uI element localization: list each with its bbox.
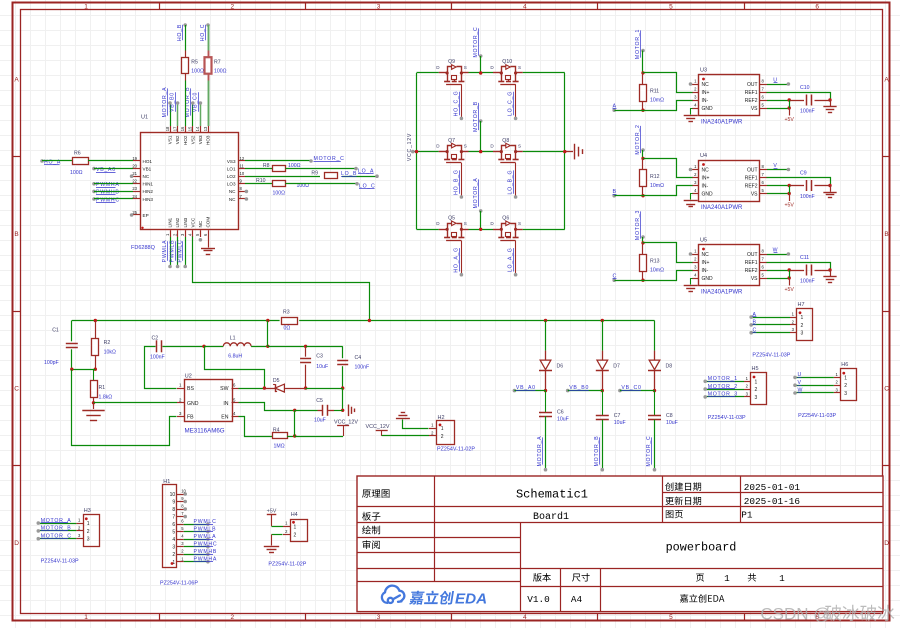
svg-text:HO_C: HO_C bbox=[200, 24, 206, 41]
svg-text:R3: R3 bbox=[283, 309, 290, 315]
svg-text:4: 4 bbox=[172, 537, 175, 543]
svg-text:Q7: Q7 bbox=[448, 138, 455, 144]
svg-text:GND: GND bbox=[702, 276, 714, 282]
svg-text:2: 2 bbox=[87, 529, 90, 535]
svg-text:8: 8 bbox=[172, 507, 175, 513]
svg-text:1MΩ: 1MΩ bbox=[274, 444, 285, 450]
svg-text:3: 3 bbox=[755, 395, 758, 401]
svg-text:6.8uH: 6.8uH bbox=[228, 354, 242, 360]
svg-text:6: 6 bbox=[815, 3, 819, 10]
svg-text:VCC_12V: VCC_12V bbox=[334, 420, 358, 426]
svg-text:H3: H3 bbox=[84, 508, 91, 514]
svg-text:A: A bbox=[14, 77, 19, 84]
svg-text:R10: R10 bbox=[256, 178, 266, 184]
svg-text:100Ω: 100Ω bbox=[70, 170, 83, 176]
svg-text:3: 3 bbox=[801, 331, 804, 337]
svg-text:PZ254V-11-02P: PZ254V-11-02P bbox=[268, 562, 306, 568]
svg-text:LIN2: LIN2 bbox=[175, 217, 180, 227]
svg-text:PZ254V-11-03P: PZ254V-11-03P bbox=[798, 413, 836, 419]
svg-text:100nF: 100nF bbox=[800, 109, 815, 115]
svg-text:1: 1 bbox=[294, 525, 297, 531]
svg-text:H1: H1 bbox=[163, 479, 170, 485]
svg-text:HO_B_G: HO_B_G bbox=[454, 169, 460, 195]
svg-text:LIN3: LIN3 bbox=[183, 217, 188, 227]
svg-text:100nF: 100nF bbox=[355, 365, 370, 371]
svg-text:9: 9 bbox=[172, 500, 175, 506]
svg-text:REF1: REF1 bbox=[745, 90, 758, 96]
svg-text:4: 4 bbox=[523, 614, 527, 621]
svg-text:C3: C3 bbox=[316, 354, 323, 360]
svg-text:OUT: OUT bbox=[747, 167, 758, 173]
svg-text:REF1: REF1 bbox=[745, 175, 758, 181]
svg-text:+5V: +5V bbox=[267, 509, 277, 515]
svg-text:R1: R1 bbox=[99, 385, 106, 391]
svg-text:COM: COM bbox=[206, 217, 211, 228]
svg-text:D: D bbox=[884, 540, 889, 547]
svg-text:10uF: 10uF bbox=[666, 420, 678, 426]
svg-text:LIN1: LIN1 bbox=[168, 217, 173, 227]
svg-text:C: C bbox=[14, 386, 19, 393]
svg-text:1: 1 bbox=[84, 3, 88, 10]
svg-text:3: 3 bbox=[844, 391, 847, 397]
svg-text:U1: U1 bbox=[141, 115, 148, 121]
svg-text:GND: GND bbox=[702, 106, 714, 112]
svg-text:REF1: REF1 bbox=[745, 260, 758, 266]
svg-text:INA240A1PWR: INA240A1PWR bbox=[701, 205, 743, 211]
svg-text:PZ254V-11-03P: PZ254V-11-03P bbox=[752, 353, 790, 359]
svg-text:VB2: VB2 bbox=[175, 135, 180, 144]
svg-text:VS: VS bbox=[751, 106, 758, 112]
svg-text:MOTOR_C: MOTOR_C bbox=[473, 26, 479, 57]
svg-text:1: 1 bbox=[779, 573, 785, 584]
svg-text:D: D bbox=[14, 540, 19, 547]
svg-text:1: 1 bbox=[87, 521, 90, 527]
svg-text:100Ω: 100Ω bbox=[273, 191, 286, 197]
svg-text:HIN2: HIN2 bbox=[143, 189, 154, 194]
svg-text:+5V: +5V bbox=[785, 117, 795, 123]
svg-text:MOTOR_B: MOTOR_B bbox=[473, 101, 479, 132]
svg-text:VB3: VB3 bbox=[198, 135, 203, 144]
svg-text:2: 2 bbox=[231, 614, 235, 621]
svg-text:powerboard: powerboard bbox=[666, 541, 737, 555]
svg-text:MOTOR_B: MOTOR_B bbox=[594, 436, 600, 467]
svg-text:EN: EN bbox=[221, 415, 228, 421]
svg-text:LO2: LO2 bbox=[227, 174, 236, 179]
svg-text:GND: GND bbox=[187, 401, 199, 407]
svg-text:EP: EP bbox=[143, 213, 149, 218]
svg-text:PZ254V-11-03P: PZ254V-11-03P bbox=[708, 415, 746, 421]
svg-text:1: 1 bbox=[724, 573, 730, 584]
svg-text:VCC_12V: VCC_12V bbox=[366, 424, 390, 430]
svg-text:MOTOR_2: MOTOR_2 bbox=[708, 384, 738, 390]
svg-text:HO1: HO1 bbox=[143, 159, 153, 164]
svg-text:REF2: REF2 bbox=[745, 268, 758, 274]
svg-text:5: 5 bbox=[669, 3, 673, 10]
svg-text:3: 3 bbox=[172, 545, 175, 551]
svg-text:10kΩ: 10kΩ bbox=[104, 350, 116, 356]
svg-text:24: 24 bbox=[132, 194, 137, 199]
svg-text:VS: VS bbox=[751, 276, 758, 282]
svg-text:18: 18 bbox=[165, 126, 170, 131]
svg-text:IN+: IN+ bbox=[702, 90, 710, 96]
svg-text:10mΩ: 10mΩ bbox=[650, 98, 664, 104]
svg-text:BS: BS bbox=[187, 386, 194, 392]
svg-text:10uF: 10uF bbox=[314, 418, 326, 424]
svg-text:VCC_12V: VCC_12V bbox=[407, 133, 413, 161]
svg-text:V: V bbox=[773, 163, 777, 169]
svg-text:VS1: VS1 bbox=[168, 135, 173, 144]
svg-text:INA240A1PWR: INA240A1PWR bbox=[701, 120, 743, 126]
svg-text:23: 23 bbox=[132, 186, 137, 191]
svg-text:4: 4 bbox=[523, 3, 527, 10]
svg-text:U4: U4 bbox=[700, 153, 707, 159]
svg-text:S: S bbox=[464, 143, 467, 148]
svg-text:+5V: +5V bbox=[785, 203, 795, 209]
svg-text:1.8kΩ: 1.8kΩ bbox=[99, 395, 113, 401]
svg-text:12: 12 bbox=[240, 156, 245, 161]
svg-text:PWMLA: PWMLA bbox=[194, 534, 217, 540]
svg-text:NC: NC bbox=[702, 252, 710, 258]
svg-text:U3: U3 bbox=[700, 68, 707, 74]
svg-text:PWMLB: PWMLB bbox=[170, 240, 176, 263]
svg-text:Q8: Q8 bbox=[502, 138, 509, 144]
svg-text:Q9: Q9 bbox=[448, 59, 455, 65]
svg-text:R13: R13 bbox=[650, 259, 660, 265]
svg-text:P1: P1 bbox=[741, 509, 753, 520]
svg-text:C2: C2 bbox=[152, 336, 159, 342]
svg-text:100Ω: 100Ω bbox=[191, 68, 204, 74]
svg-text:IN-: IN- bbox=[702, 98, 709, 104]
svg-text:VB_A0: VB_A0 bbox=[96, 167, 116, 173]
svg-text:R2: R2 bbox=[104, 340, 111, 346]
svg-text:1: 1 bbox=[844, 375, 847, 381]
svg-text:1: 1 bbox=[441, 426, 444, 432]
svg-text:2: 2 bbox=[231, 3, 235, 10]
svg-text:10mΩ: 10mΩ bbox=[650, 183, 664, 189]
svg-text:IN-: IN- bbox=[702, 268, 709, 274]
svg-text:PZ254V-11-02P: PZ254V-11-02P bbox=[437, 447, 475, 453]
svg-text:NC: NC bbox=[702, 167, 710, 173]
svg-text:LO_B_G: LO_B_G bbox=[508, 170, 514, 195]
svg-text:HIN1: HIN1 bbox=[143, 182, 154, 187]
svg-text:S: S bbox=[518, 143, 521, 148]
svg-text:R11: R11 bbox=[650, 89, 659, 95]
svg-text:1: 1 bbox=[801, 315, 804, 321]
svg-text:20: 20 bbox=[132, 163, 137, 168]
svg-text:PWMHB: PWMHB bbox=[194, 549, 218, 555]
svg-text:H6: H6 bbox=[841, 362, 848, 368]
svg-text:10uF: 10uF bbox=[316, 364, 328, 370]
svg-text:A4: A4 bbox=[571, 594, 583, 605]
svg-text:2025-01-01: 2025-01-01 bbox=[744, 482, 801, 493]
svg-text:6: 6 bbox=[172, 522, 175, 528]
svg-text:100nF: 100nF bbox=[800, 194, 815, 200]
svg-text:1: 1 bbox=[84, 614, 88, 621]
svg-text:VS: VS bbox=[751, 191, 758, 197]
svg-text:2025-01-16: 2025-01-16 bbox=[744, 496, 801, 507]
svg-text:S: S bbox=[518, 221, 521, 226]
svg-text:10mΩ: 10mΩ bbox=[650, 268, 664, 274]
svg-text:7: 7 bbox=[172, 515, 175, 521]
svg-text:D5: D5 bbox=[273, 378, 280, 384]
svg-text:V: V bbox=[798, 380, 802, 386]
svg-text:3: 3 bbox=[377, 3, 381, 10]
svg-text:R12: R12 bbox=[650, 174, 660, 180]
svg-text:FB: FB bbox=[187, 415, 194, 421]
svg-text:HO3: HO3 bbox=[206, 135, 211, 145]
svg-text:SW: SW bbox=[220, 386, 228, 392]
svg-text:V1.0: V1.0 bbox=[527, 594, 550, 605]
svg-text:IN+: IN+ bbox=[702, 260, 710, 266]
svg-text:100nF: 100nF bbox=[800, 279, 815, 285]
svg-text:100pF: 100pF bbox=[44, 360, 59, 366]
svg-text:L1: L1 bbox=[230, 336, 236, 342]
svg-text:H4: H4 bbox=[291, 512, 298, 518]
svg-text:3: 3 bbox=[87, 537, 90, 543]
svg-text:S: S bbox=[464, 65, 467, 70]
svg-text:C4: C4 bbox=[355, 355, 362, 361]
svg-text:NC: NC bbox=[229, 197, 236, 202]
svg-text:R7: R7 bbox=[214, 59, 221, 65]
svg-text:Q6: Q6 bbox=[502, 216, 509, 222]
svg-text:IN-: IN- bbox=[702, 183, 709, 189]
svg-text:MOTOR_A: MOTOR_A bbox=[41, 518, 72, 524]
svg-text:MOTOR_A: MOTOR_A bbox=[473, 178, 479, 209]
svg-text:H2: H2 bbox=[438, 415, 445, 421]
svg-text:+5V: +5V bbox=[785, 287, 795, 293]
svg-text:14: 14 bbox=[195, 126, 200, 131]
svg-text:R9: R9 bbox=[311, 170, 318, 176]
svg-text:13: 13 bbox=[203, 126, 208, 131]
svg-text:B: B bbox=[884, 231, 888, 238]
svg-text:PZ254V-11-06P: PZ254V-11-06P bbox=[160, 581, 198, 587]
svg-text:100nF: 100nF bbox=[150, 355, 165, 361]
svg-text:PWMLC: PWMLC bbox=[194, 519, 217, 525]
svg-text:C5: C5 bbox=[316, 398, 323, 404]
svg-text:B: B bbox=[14, 231, 18, 238]
svg-text:A: A bbox=[753, 312, 757, 318]
svg-text:10uF: 10uF bbox=[614, 420, 626, 426]
svg-text:17: 17 bbox=[172, 126, 177, 131]
svg-text:10: 10 bbox=[170, 492, 176, 498]
svg-text:OUT: OUT bbox=[747, 82, 758, 88]
svg-text:ME3116AM6G: ME3116AM6G bbox=[185, 428, 225, 435]
svg-text:H5: H5 bbox=[752, 366, 759, 372]
svg-text:IN+: IN+ bbox=[702, 175, 710, 181]
svg-text:IN: IN bbox=[223, 401, 228, 407]
svg-text:D8: D8 bbox=[666, 364, 673, 370]
svg-text:INA240A1PWR: INA240A1PWR bbox=[701, 290, 743, 296]
svg-text:REF2: REF2 bbox=[745, 183, 758, 189]
svg-text:0Ω: 0Ω bbox=[284, 326, 291, 332]
svg-text:EDA: EDA bbox=[455, 590, 487, 607]
svg-text:PZ254V-11-03P: PZ254V-11-03P bbox=[41, 559, 79, 565]
svg-text:NC: NC bbox=[702, 82, 710, 88]
svg-text:D6: D6 bbox=[557, 364, 564, 370]
svg-text:CSDN @: CSDN @ bbox=[760, 604, 830, 623]
svg-text:MOTOR_1: MOTOR_1 bbox=[708, 376, 738, 382]
svg-text:VS2: VS2 bbox=[190, 135, 195, 144]
svg-text:2: 2 bbox=[172, 552, 175, 558]
svg-text:16: 16 bbox=[180, 126, 185, 131]
svg-text:LO_B: LO_B bbox=[341, 171, 357, 177]
svg-text:REF2: REF2 bbox=[745, 98, 758, 104]
svg-text:NC: NC bbox=[143, 174, 150, 179]
svg-text:HIN3: HIN3 bbox=[143, 197, 154, 202]
svg-text:C1: C1 bbox=[52, 328, 59, 334]
svg-text:5: 5 bbox=[172, 530, 175, 536]
svg-text:C11: C11 bbox=[800, 255, 809, 261]
svg-text:2: 2 bbox=[294, 533, 297, 539]
svg-text:GND: GND bbox=[702, 191, 714, 197]
svg-text:C9: C9 bbox=[800, 171, 807, 177]
svg-text:NC: NC bbox=[229, 189, 236, 194]
svg-text:VCC: VCC bbox=[190, 217, 195, 227]
svg-text:15: 15 bbox=[188, 126, 193, 131]
svg-text:VS3: VS3 bbox=[227, 159, 236, 164]
svg-text:2: 2 bbox=[801, 323, 804, 329]
svg-text:10uF: 10uF bbox=[557, 417, 569, 423]
svg-text:NC: NC bbox=[198, 220, 203, 227]
svg-text:Board1: Board1 bbox=[533, 511, 569, 523]
svg-text:LO_A_G: LO_A_G bbox=[508, 247, 514, 272]
svg-text:S: S bbox=[518, 65, 521, 70]
svg-text:HO2: HO2 bbox=[183, 135, 188, 145]
svg-text:Schematic1: Schematic1 bbox=[516, 488, 588, 502]
svg-text:10: 10 bbox=[240, 171, 245, 176]
svg-text:3: 3 bbox=[377, 614, 381, 621]
svg-text:HO_A_G: HO_A_G bbox=[454, 247, 460, 273]
svg-text:A: A bbox=[884, 77, 889, 84]
svg-text:S: S bbox=[464, 221, 467, 226]
svg-text:100Ω: 100Ω bbox=[288, 163, 301, 169]
svg-text:C6: C6 bbox=[557, 410, 564, 416]
svg-text:R8: R8 bbox=[263, 163, 270, 169]
svg-text:22: 22 bbox=[132, 179, 137, 184]
svg-text:C: C bbox=[884, 386, 889, 393]
svg-text:U5: U5 bbox=[700, 238, 707, 244]
svg-text:Q5: Q5 bbox=[448, 216, 455, 222]
svg-text:U2: U2 bbox=[185, 374, 192, 380]
svg-text:2: 2 bbox=[441, 434, 444, 440]
svg-text:VB_C0: VB_C0 bbox=[193, 92, 199, 112]
svg-text:HO_C_G: HO_C_G bbox=[454, 91, 460, 117]
svg-text:VB1: VB1 bbox=[143, 166, 152, 171]
svg-text:LO3: LO3 bbox=[227, 182, 236, 187]
svg-text:VB_B0: VB_B0 bbox=[170, 92, 176, 112]
svg-text:2: 2 bbox=[755, 387, 758, 393]
svg-text:C8: C8 bbox=[666, 413, 673, 419]
svg-text:LO1: LO1 bbox=[227, 166, 236, 171]
svg-text:R5: R5 bbox=[191, 59, 198, 65]
svg-text:C7: C7 bbox=[614, 413, 621, 419]
svg-text:19: 19 bbox=[132, 156, 137, 161]
svg-text:D7: D7 bbox=[613, 364, 620, 370]
svg-text:2: 2 bbox=[844, 383, 847, 389]
svg-text:OUT: OUT bbox=[747, 252, 758, 258]
svg-text:HO_B: HO_B bbox=[177, 24, 183, 41]
svg-text:100Ω: 100Ω bbox=[214, 68, 227, 74]
svg-text:C10: C10 bbox=[800, 85, 810, 91]
svg-text:R4: R4 bbox=[273, 427, 280, 433]
svg-text:R6: R6 bbox=[74, 150, 81, 156]
svg-text:11: 11 bbox=[240, 163, 245, 168]
svg-text:H7: H7 bbox=[798, 302, 805, 308]
svg-text:FD6288Q: FD6288Q bbox=[131, 245, 156, 251]
svg-text:LO_C_G: LO_C_G bbox=[508, 91, 514, 116]
svg-text:Q10: Q10 bbox=[502, 59, 512, 65]
svg-text:5: 5 bbox=[669, 614, 673, 621]
svg-text:1: 1 bbox=[755, 379, 758, 385]
